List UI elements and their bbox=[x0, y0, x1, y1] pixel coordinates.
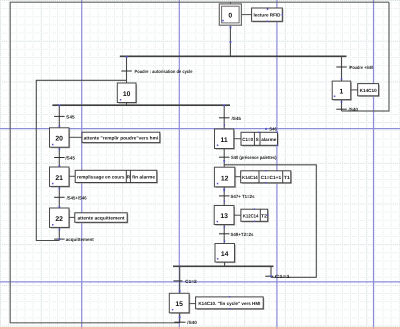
step 14 bbox=[215, 244, 235, 263]
wire step0 top stub bbox=[229, 2, 231, 4]
svg-text:22: 22 bbox=[55, 216, 63, 223]
svg-text:S: S bbox=[256, 137, 259, 142]
guide line vertical x=373.5 bbox=[373, 0, 375, 329]
wire step12 to action bbox=[235, 176, 241, 178]
svg-text:K14C10. "fin cycle" vers HMI: K14C10. "fin cycle" vers HMI bbox=[198, 301, 260, 306]
svg-text:S46: S46 bbox=[269, 126, 277, 131]
svg-text:T2: T2 bbox=[261, 213, 267, 218]
svg-text:/Poudre +S40: /Poudre +S40 bbox=[349, 65, 374, 70]
svg-text:C1=C1+1: C1=C1+1 bbox=[261, 175, 282, 180]
svg-text:21: 21 bbox=[55, 175, 63, 182]
svg-text:15: 15 bbox=[175, 301, 183, 308]
wire between step13 and step14 bbox=[223, 225, 225, 244]
svg-text:C1=1: C1=1 bbox=[275, 274, 291, 279]
action C1=0 / S / alarme bbox=[241, 132, 278, 146]
svg-text:14: 14 bbox=[221, 251, 229, 258]
svg-text:/S45: /S45 bbox=[65, 156, 75, 161]
step 21 bbox=[50, 167, 70, 187]
action attente "remplir poudre" vers hmi bbox=[82, 132, 160, 143]
guide line horizontal y=281.9 bbox=[0, 281, 400, 283]
wire step20 to action bbox=[69, 136, 82, 138]
transition /S45 left bbox=[54, 156, 75, 161]
step 15 bbox=[169, 293, 189, 313]
svg-text:attente acquittement: attente acquittement bbox=[78, 216, 125, 221]
wire C1=1 repeat loop bbox=[224, 165, 316, 277]
wire left branch down to step 10 bbox=[126, 56, 128, 83]
wire convergence down to C1=1 branch bbox=[270, 266, 272, 277]
action attente acquittement bbox=[75, 213, 128, 223]
svg-text:S40 (présence palettes): S40 (présence palettes) bbox=[231, 155, 277, 160]
wire middle branch top bbox=[223, 105, 225, 129]
wire step22 down to loop corner bbox=[58, 227, 60, 240]
svg-text:C1=0: C1=0 bbox=[242, 137, 253, 142]
svg-text:remplissage en cours: remplissage en cours bbox=[77, 175, 125, 180]
guide line horizontal y=128.6 bbox=[0, 128, 400, 130]
step 20 bbox=[50, 128, 70, 148]
svg-text:1: 1 bbox=[340, 89, 344, 96]
svg-text:K12C14: K12C14 bbox=[243, 213, 259, 218]
transition C1=1 bbox=[265, 274, 290, 279]
svg-text:S48+T2=2s: S48+T2=2s bbox=[231, 232, 254, 237]
step 10 bbox=[117, 83, 136, 103]
wire step15 down to return loop bbox=[179, 313, 181, 323]
svg-text:acquittement: acquittement bbox=[66, 237, 94, 242]
svg-text:K14C14: K14C14 bbox=[242, 175, 258, 180]
wire step14 to convergence bbox=[224, 262, 226, 266]
wire step1 down to /S40 bbox=[341, 100, 343, 111]
wire between step11 and step12 bbox=[223, 149, 225, 168]
wire acquittement return loop bbox=[36, 80, 126, 240]
action K14C14 / C1=C1+1 / T1 bbox=[241, 171, 292, 184]
transition /S45 middle bbox=[219, 116, 241, 121]
step 1 bbox=[332, 81, 351, 100]
action K14C10 bbox=[358, 84, 379, 97]
bottom orange rule bbox=[0, 327, 400, 329]
wire step13 to action bbox=[234, 214, 241, 216]
wire convergence down to step 15 bbox=[179, 266, 181, 293]
svg-text:/S40: /S40 bbox=[187, 320, 197, 325]
svg-text:T1: T1 bbox=[284, 175, 290, 180]
transition /S40 right bbox=[336, 107, 358, 112]
guide line vertical x=81.7 bbox=[81, 0, 83, 329]
action lecture RFID bbox=[252, 8, 283, 22]
transition /Poudre +S40 bbox=[336, 65, 373, 70]
step 13 bbox=[214, 206, 234, 226]
svg-text:0: 0 bbox=[228, 13, 232, 20]
wire step0 to divergence bbox=[229, 25, 231, 56]
transition S47+ T1=2s bbox=[219, 194, 255, 199]
guide line vertical x=276.9 bbox=[276, 0, 278, 329]
divergence rail below step 10 bbox=[52, 104, 230, 106]
svg-text:12: 12 bbox=[221, 175, 229, 182]
svg-text:11: 11 bbox=[221, 137, 228, 144]
action K12C14 / T2 bbox=[241, 209, 268, 222]
step 22 bbox=[50, 208, 70, 228]
svg-text:20: 20 bbox=[55, 136, 63, 143]
action K14C10. "fin cycle" vers HMI bbox=[196, 297, 264, 309]
svg-text:S47+ T1=2s: S47+ T1=2s bbox=[231, 194, 255, 199]
svg-text:/S40: /S40 bbox=[349, 107, 359, 112]
wire step15 to action bbox=[189, 303, 196, 305]
wire between step20 and step21 bbox=[58, 147, 60, 167]
transition C1=2 bbox=[174, 279, 198, 284]
wire left column upper bbox=[58, 105, 60, 128]
wire step22 to action bbox=[69, 216, 75, 218]
wire step0 to action bbox=[241, 14, 251, 16]
svg-text:/S45+/S46: /S45+/S46 bbox=[67, 195, 87, 200]
wire step21 to action bbox=[69, 175, 75, 177]
transition Poudre : autorisation de cycle bbox=[121, 69, 193, 74]
svg-text:C1=2: C1=2 bbox=[185, 279, 197, 284]
transition acquittement bbox=[54, 237, 94, 242]
wire between step21 and step22 bbox=[58, 186, 60, 208]
transition S48+T2=2s bbox=[219, 232, 254, 237]
transition /S45+/S46 bbox=[54, 195, 87, 200]
transition /S40 bottom bbox=[174, 320, 197, 325]
svg-text:fin alarme: fin alarme bbox=[132, 175, 155, 180]
svg-text:S45: S45 bbox=[66, 114, 75, 119]
wire step11 to action bbox=[234, 138, 241, 140]
node label S46 bbox=[265, 126, 277, 131]
wire step1 to action bbox=[351, 89, 358, 91]
transition S45 bbox=[54, 114, 75, 119]
selection handle dots bbox=[52, 9, 342, 319]
svg-text:/S45: /S45 bbox=[232, 116, 242, 121]
wire return loop right (from /S40 below step 1 up to top rail) bbox=[342, 2, 390, 111]
step 11 bbox=[215, 129, 235, 149]
wire between step12 and step13 bbox=[223, 187, 225, 206]
guide line vertical x=179.3 bbox=[178, 0, 180, 329]
wire step10 bottom stub bbox=[126, 103, 128, 106]
svg-text:K14C10: K14C10 bbox=[360, 88, 377, 93]
convergence rail below step 14 bbox=[173, 265, 274, 267]
svg-text:attente "remplir poudre"vers h: attente "remplir poudre"vers hmi bbox=[84, 135, 159, 140]
step 0 initial double square bbox=[219, 4, 241, 25]
step 12 bbox=[214, 167, 235, 187]
svg-text:Poudre : autorisation de cycle: Poudre : autorisation de cycle bbox=[135, 69, 193, 74]
action remplissage en cours / R fin alarme bbox=[75, 170, 157, 183]
wire right branch down to step 1 bbox=[341, 56, 343, 81]
divergence rail below step 0 bbox=[120, 55, 347, 57]
svg-text:13: 13 bbox=[220, 213, 228, 220]
svg-text:10: 10 bbox=[123, 91, 131, 98]
transition S40 (présence palette) bbox=[219, 155, 277, 160]
svg-text:lecture RFID: lecture RFID bbox=[254, 13, 282, 18]
svg-text:alarme: alarme bbox=[261, 137, 276, 142]
